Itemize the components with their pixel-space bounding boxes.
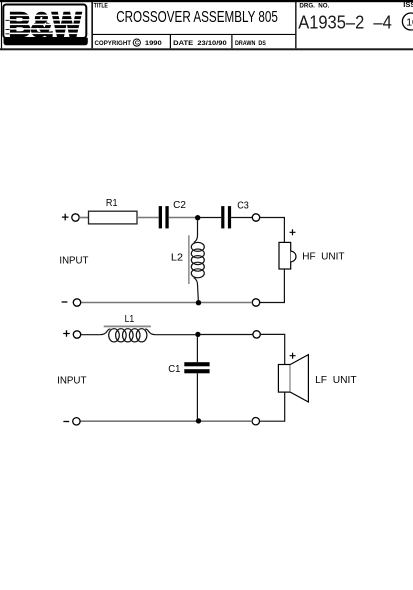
minus sign at HF input	[62, 301, 68, 303]
svg-text:C2: C2	[173, 200, 186, 211]
title block divider before DRG NO cell	[295, 2, 296, 48]
HF unit dome	[291, 251, 296, 262]
svg-text:LF UNIT: LF UNIT	[315, 375, 357, 386]
terminal circle LF input -	[73, 418, 80, 425]
svg-text:L2: L2	[171, 253, 184, 264]
wire terminal to R1	[79, 217, 88, 219]
capacitor C2	[159, 206, 169, 228]
B&W logo lettering	[6, 6, 85, 43]
title block left border	[1, 0, 2, 49]
wire node to C3	[200, 217, 221, 219]
title block top border	[0, 0, 413, 2]
inductor L1 coil	[109, 329, 147, 342]
terminal circle HF unit + side	[252, 214, 259, 221]
svg-text:INPUT: INPUT	[59, 256, 88, 267]
LF unit speaker cone	[290, 355, 308, 402]
inductor L1 left lead hook	[100, 329, 111, 335]
resistor R1	[89, 211, 138, 224]
wire node down to C1	[196, 337, 198, 362]
inductor L1 right lead hook	[145, 329, 156, 335]
terminal circle HF input -	[73, 299, 80, 306]
title block horizontal divider above copyright row	[93, 34, 295, 35]
capacitor C3	[221, 206, 231, 228]
terminal circle HF unit - side	[252, 299, 259, 306]
plus sign at LF unit	[290, 353, 296, 359]
wire C3 to HF+ terminal	[231, 217, 252, 219]
wire HF unit bottom to terminal	[260, 269, 285, 303]
terminal circle LF unit + side	[253, 331, 260, 338]
inductor L2 coil	[191, 242, 204, 277]
svg-text:HF UNIT: HF UNIT	[302, 252, 344, 263]
svg-text:C3: C3	[237, 201, 249, 212]
wire terminal to HF unit top	[260, 218, 285, 243]
B&W logo rounded frame	[3, 5, 86, 39]
terminal circle LF input +	[73, 331, 80, 338]
B&W logo bottom black bar	[4, 38, 88, 46]
capacitor C1	[184, 362, 209, 373]
plus sign at HF unit	[290, 229, 296, 235]
wire C1 to node	[196, 373, 198, 418]
wire R1 to C2	[137, 217, 159, 219]
terminal circle HF input +	[72, 214, 79, 221]
svg-text:A1935–2 –4: A1935–2 –4	[298, 12, 392, 33]
svg-text:DRG. NO.: DRG. NO.	[299, 2, 329, 9]
minus sign at LF input	[63, 421, 69, 423]
wire LF unit bottom to terminal	[260, 392, 285, 421]
svg-text:ISS: ISS	[403, 0, 413, 9]
svg-text:INPUT: INPUT	[57, 376, 86, 387]
inductor L1 core bar	[104, 326, 151, 328]
copyright symbol	[133, 39, 140, 47]
svg-text:10: 10	[406, 16, 413, 28]
svg-text:C1: C1	[168, 364, 181, 375]
junction node top of C1	[195, 332, 200, 337]
svg-text:1990: 1990	[145, 40, 162, 47]
inductor L2 core bar	[188, 235, 190, 284]
LF bottom rail wire	[80, 420, 252, 422]
wire node to LF+ terminal	[201, 334, 253, 336]
junction node bottom of C1	[196, 418, 201, 423]
svg-text:L1: L1	[125, 314, 135, 325]
svg-text:DRAWN DS: DRAWN DS	[235, 40, 266, 47]
svg-text:COPYRIGHT: COPYRIGHT	[95, 40, 132, 47]
wire terminal to LF unit top	[260, 334, 284, 364]
HF unit tweeter body	[279, 242, 291, 269]
wire C2 to node	[169, 217, 196, 219]
junction node top of L2	[195, 215, 200, 220]
wire node down to L2	[194, 220, 198, 242]
wire L2 bottom to node	[194, 278, 199, 301]
title block divider after logo cell	[91, 2, 93, 48]
title block bottom border	[0, 48, 413, 50]
LF unit speaker magnet	[278, 365, 290, 393]
copyright row divider before DATE	[170, 35, 171, 48]
svg-text:R1: R1	[106, 198, 118, 209]
wire L1 to node	[156, 334, 195, 336]
svg-text:DATE 23/10/90: DATE 23/10/90	[173, 40, 227, 47]
plus sign at LF input	[63, 330, 70, 337]
plus sign at HF input	[62, 214, 69, 221]
svg-text:CROSSOVER ASSEMBLY 805: CROSSOVER ASSEMBLY 805	[116, 9, 278, 26]
junction node bottom of L2	[196, 300, 201, 305]
issue circle 10	[402, 13, 413, 30]
wire terminal to L1	[81, 334, 100, 336]
HF bottom rail wire	[81, 302, 253, 304]
terminal circle LF unit - side	[252, 418, 259, 425]
svg-text:TITLE: TITLE	[94, 2, 108, 9]
copyright row divider before DRAWN	[231, 35, 232, 48]
